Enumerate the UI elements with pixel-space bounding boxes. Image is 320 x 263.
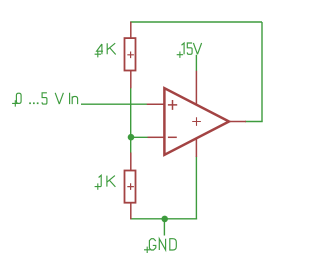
pin R2.1 [130,153,132,171]
op-amp U1 [147,71,246,157]
resistor R1 origin cross [127,52,134,59]
label GND [144,239,176,253]
node junction divider/inverting [128,134,135,141]
label 4K [95,43,116,57]
resistor R2 origin cross [127,183,134,190]
op-amp minus symbol [168,136,177,138]
resistor R2 body [125,171,136,203]
pin inverting input [148,136,164,138]
wire top feedback horizontal [130,21,262,23]
wire inverting input [131,136,148,138]
pin R1.2 [130,71,132,89]
pin V- [195,138,197,158]
pin R1.1 [130,22,132,38]
wire bottom ground horizontal [130,218,197,220]
wire input net horizontal [81,103,147,105]
node junction ground [161,216,168,223]
pin V+ [195,71,197,106]
label 0 ... 5 V In [12,93,78,107]
resistor R1 4K [125,22,136,89]
pin output [229,121,246,123]
op-amp origin cross [192,117,201,126]
pin noninverting input [147,103,164,105]
wire 15V supply stub [195,55,197,71]
resistor R2 1K [125,153,136,220]
op-amp plus symbol [168,100,177,110]
wire output to feedback [245,121,263,123]
label 1K [95,175,116,190]
pin R2.2 [130,203,132,219]
wire opamp V- to ground [195,157,197,220]
wire GND stub [163,219,165,236]
label 15V [177,43,202,58]
op-amp U1 triangle body [164,88,229,155]
resistor R1 body [125,38,136,70]
wire divider vertical [130,88,132,154]
wire feedback vertical right [261,22,263,122]
